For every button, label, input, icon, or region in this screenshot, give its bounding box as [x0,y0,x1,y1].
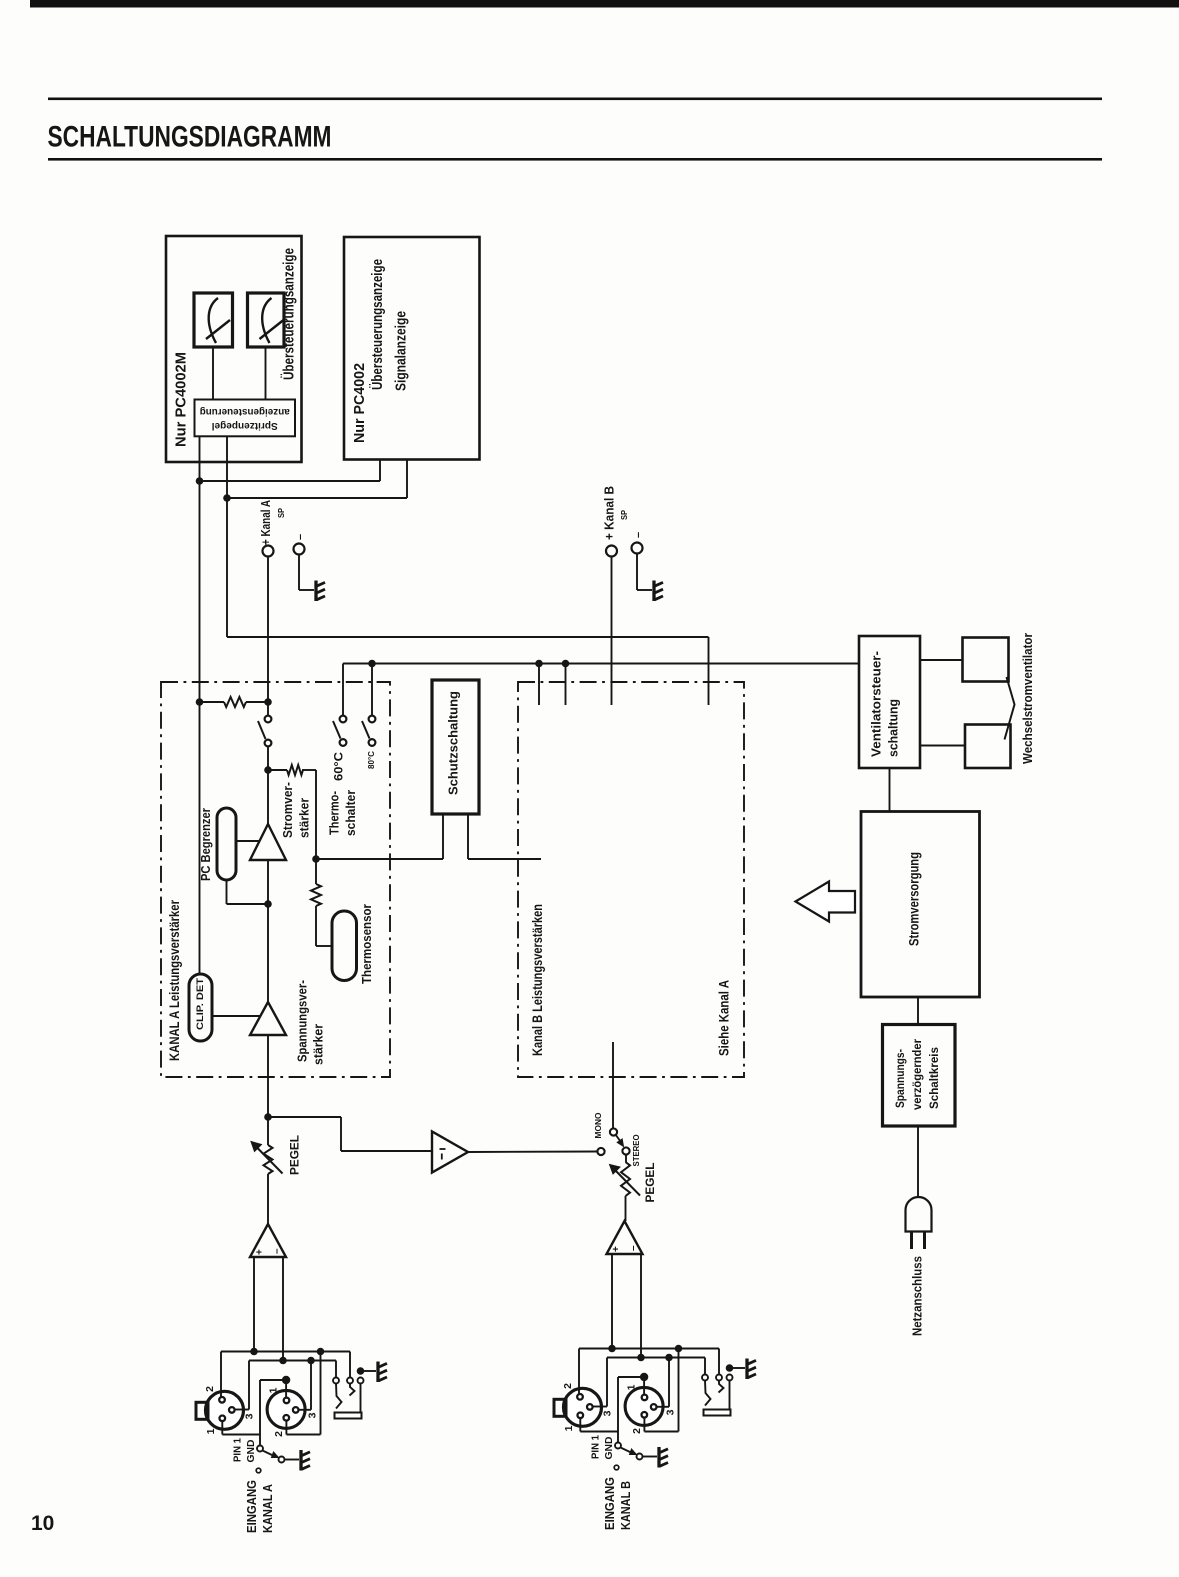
svg-text:1: 1 [625,1384,637,1390]
svg-text:2: 2 [204,1386,216,1392]
svg-text:2: 2 [562,1383,574,1389]
svg-text:GND: GND [246,1440,257,1463]
svg-text:60°C: 60°C [333,752,345,781]
svg-text:verzögernder: verzögernder [910,1039,924,1110]
svg-text:SCHALTUNGSDIAGRAMM: SCHALTUNGSDIAGRAMM [48,121,332,154]
svg-text:–: – [628,1245,639,1251]
svg-text:+: + [255,1249,266,1255]
svg-text:PIN 1: PIN 1 [591,1435,602,1459]
svg-text:–: – [632,532,644,538]
svg-text:+ Kanal A: + Kanal A [259,500,273,545]
svg-text:Thermo-: Thermo- [327,791,341,835]
svg-text:Übersteuerungsanzeige: Übersteuerungsanzeige [369,259,386,390]
svg-text:STEREO: STEREO [631,1134,641,1166]
svg-text:Kanal B Leistungsverstärken: Kanal B Leistungsverstärken [529,904,545,1056]
svg-text:1: 1 [267,1387,279,1393]
svg-text:Nur PC4002M: Nur PC4002M [173,352,190,447]
svg-text:+ Kanal B: + Kanal B [602,486,616,540]
svg-text:EINGANG: EINGANG [602,1477,617,1530]
svg-text:1: 1 [205,1428,217,1434]
svg-text:80°C: 80°C [367,751,376,769]
svg-text:3: 3 [243,1413,255,1419]
svg-text:3: 3 [601,1410,613,1416]
svg-text:Schutzschaltung: Schutzschaltung [445,691,460,795]
svg-text:10: 10 [31,1512,54,1535]
svg-text:CLIP. DET: CLIP. DET [195,977,205,1030]
svg-text:Thermosensor: Thermosensor [360,904,374,984]
svg-text:anzeigensteuerung: anzeigensteuerung [200,406,290,418]
svg-text:Stromversorgung: Stromversorgung [906,852,922,946]
svg-text:Wechselstromventilator: Wechselstromventilator [1020,633,1035,764]
svg-text:MONO: MONO [593,1112,603,1138]
svg-text:3: 3 [306,1412,318,1418]
svg-text:SP: SP [277,507,286,518]
svg-text:Signalanzeige: Signalanzeige [393,311,410,391]
svg-text:Schaltkreis: Schaltkreis [927,1047,941,1109]
svg-text:KANAL A Leistungsverstärker: KANAL A Leistungsverstärker [166,900,182,1061]
svg-text:Stromver-: Stromver- [281,782,295,838]
svg-text:2: 2 [631,1428,643,1434]
svg-text:Nur PC4002: Nur PC4002 [351,363,368,443]
svg-text:PIN 1: PIN 1 [233,1438,244,1462]
svg-text:SP: SP [620,509,629,520]
svg-text:KANAL B: KANAL B [618,1481,633,1530]
svg-text:3: 3 [664,1409,676,1415]
svg-text:GND: GND [604,1437,615,1460]
svg-text:PEGEL: PEGEL [288,1135,302,1175]
svg-text:Übersteuerungsanzeige: Übersteuerungsanzeige [281,248,298,380]
svg-text:+: + [611,1246,622,1252]
svg-text:1: 1 [563,1425,575,1431]
svg-text:–: – [272,1248,283,1254]
svg-text:KANAL A: KANAL A [260,1483,275,1533]
svg-text:stärker: stärker [297,798,311,838]
svg-text:–: – [294,534,306,540]
svg-text:schaltung: schaltung [886,699,900,757]
svg-text:PEGEL: PEGEL [643,1163,657,1203]
svg-text:EINGANG: EINGANG [244,1480,259,1533]
svg-text:Spritzenpegel: Spritzenpegel [212,420,278,432]
svg-text:Spannungsver-: Spannungsver- [295,980,309,1062]
svg-text:Spannungs-: Spannungs- [893,1049,907,1108]
svg-text:stärker: stärker [311,1024,325,1065]
svg-text:Netzanschluss: Netzanschluss [909,1256,924,1336]
svg-text:PC Begrenzer: PC Begrenzer [199,808,213,881]
svg-text:Siehe Kanal A: Siehe Kanal A [716,980,732,1056]
svg-text:2: 2 [273,1431,285,1437]
svg-text:schalter: schalter [344,790,358,836]
svg-text:Ventilatorsteuer-: Ventilatorsteuer- [869,651,883,757]
